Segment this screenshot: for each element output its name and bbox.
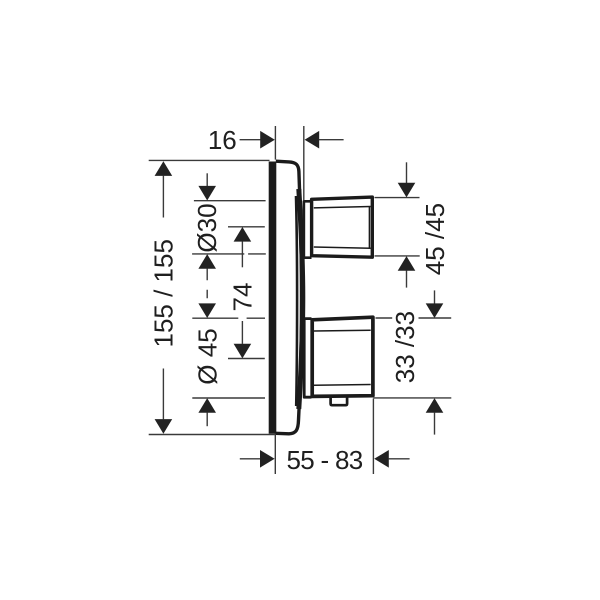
lower handle bottom chamfer line bbox=[314, 384, 371, 387]
dim 155/155 extension line top bbox=[149, 159, 270, 161]
dim D30 extension line bottom bbox=[192, 253, 266, 255]
upper handle bottom chamfer line bbox=[314, 247, 371, 248]
svg-text:Ø 45: Ø 45 bbox=[193, 328, 223, 384]
upper handle sleeve bbox=[304, 201, 312, 257]
dim 16 leader left bbox=[240, 139, 261, 141]
dim 45/45 arrow top bbox=[398, 183, 416, 198]
dim 55-83 arrow right bbox=[374, 450, 389, 468]
dim 33/33 arrow top bbox=[426, 303, 444, 318]
dim 45/45 stem top bbox=[406, 162, 408, 183]
svg-text:74: 74 bbox=[227, 283, 257, 312]
svg-text:55 - 83: 55 - 83 bbox=[286, 445, 362, 475]
dim 155/155 arrow bottom bbox=[155, 419, 173, 434]
dim D45 stem bottom bbox=[206, 412, 208, 426]
dim 16 arrow left bbox=[260, 131, 275, 149]
svg-text:16: 16 bbox=[208, 125, 237, 155]
dim D30 stem bottom with dash bbox=[206, 268, 208, 298]
dim 45/45 arrow bottom bbox=[398, 256, 416, 271]
dim D45 extension line bottom bbox=[192, 397, 265, 399]
dim 16 extension line left bbox=[274, 126, 276, 160]
svg-text:33 /33: 33 /33 bbox=[390, 311, 420, 383]
dim 74 arrow top bbox=[234, 227, 252, 242]
dim 74 stem top bbox=[241, 241, 243, 267]
dim 33/33 stem bottom bbox=[434, 412, 436, 434]
dim 155/155 extension line bottom bbox=[149, 434, 275, 436]
svg-text:45 /45: 45 /45 bbox=[420, 203, 450, 275]
dim 74 center line bottom bbox=[228, 358, 265, 360]
upper handle body bbox=[312, 197, 373, 257]
dim 155/155 stem top bbox=[162, 176, 164, 218]
upper handle front face line bbox=[368, 207, 370, 248]
dim 33/33 arrow bottom bbox=[426, 398, 444, 413]
dim 55-83 arrow left bbox=[260, 450, 275, 468]
dim 33/33 extension line top bbox=[376, 317, 452, 319]
wall plate outline (side profile) bbox=[276, 161, 302, 434]
dim D30 arrow top bbox=[198, 186, 216, 201]
dim 45/45 extension line bottom bbox=[375, 255, 420, 257]
dim 16 arrow right bbox=[305, 131, 320, 149]
dim 55-83 extension line left bbox=[274, 434, 276, 475]
dim D30 extension line top bbox=[194, 200, 266, 202]
dim D30 stem top bbox=[206, 173, 208, 186]
lower handle top chamfer line bbox=[314, 329, 371, 332]
dim 155/155 arrow top bbox=[155, 161, 173, 176]
dim 74 stem bottom bbox=[241, 321, 243, 344]
dim D45 arrow bottom bbox=[198, 398, 216, 413]
dim 55-83 leader left bbox=[240, 458, 261, 460]
dim 16 leader right bbox=[319, 139, 344, 141]
dim D45 arrow top bbox=[198, 303, 216, 318]
dim 45/45 stem bottom bbox=[406, 270, 408, 287]
svg-text:Ø30: Ø30 bbox=[192, 203, 222, 252]
dim D45 extension line top bbox=[192, 317, 265, 319]
wall plate front face edge bbox=[299, 189, 303, 409]
dim 155/155 stem bottom bbox=[162, 369, 164, 420]
safety stop tab bbox=[331, 398, 348, 406]
dim 45/45 extension line top bbox=[375, 197, 420, 199]
svg-text:155 / 155: 155 / 155 bbox=[149, 239, 179, 347]
dim 33/33 stem top bbox=[434, 290, 436, 303]
dim 55-83 extension line right bbox=[372, 399, 374, 475]
upper handle top chamfer line bbox=[314, 207, 371, 208]
dim 74 center line top bbox=[228, 226, 265, 228]
dim 55-83 leader right bbox=[388, 458, 409, 460]
lower handle sleeve bbox=[304, 319, 311, 398]
wall plate back edge bar bbox=[269, 162, 277, 434]
dim 33/33 extension line bottom bbox=[374, 397, 452, 399]
dim D30 arrow bottom bbox=[198, 254, 216, 269]
dim 74 arrow bottom bbox=[234, 344, 252, 359]
wall plate inner dome contour bbox=[296, 196, 297, 406]
dim 16 extension line right bbox=[303, 126, 305, 200]
lower handle body bbox=[312, 317, 373, 396]
